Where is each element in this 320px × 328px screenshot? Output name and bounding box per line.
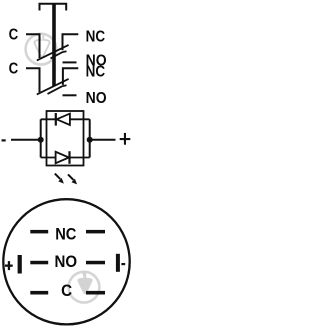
svg-text:NO: NO [55,253,78,271]
watermark logo bottom [69,271,100,303]
row NO dashes [30,261,48,265]
watermark logo top [26,34,57,65]
LED right wire [90,139,116,141]
svg-text:NC: NC [55,226,76,244]
pole 1 NO landing segment [51,51,67,58]
top diode wire [41,118,90,120]
row NC dashes [30,230,48,234]
bottom diode (points right) [56,152,69,163]
bottom diode wire [41,157,90,159]
pole 2 C lead [26,68,40,92]
junction dot left [38,137,44,143]
left pin bar [18,255,22,274]
pole 1 arm from C [37,45,69,61]
LED minus terminal [2,139,6,141]
svg-text:C: C [61,282,72,300]
top diode (points left) [55,113,57,126]
pole 2 NO landing segment [48,85,67,94]
pole 1 NO lead [63,61,77,63]
svg-text:C: C [9,27,19,44]
svg-text:C: C [9,61,19,78]
LED box [47,111,84,166]
actuator bracket [40,4,67,11]
LED right branch [89,119,91,157]
minus sign [121,263,125,265]
svg-text:NO: NO [86,90,107,107]
row C dashes [30,291,48,295]
pole 2 arm from C [37,79,69,95]
svg-text:NC: NC [86,63,106,80]
pole 1 C lead [26,34,40,58]
pinout circle [3,199,129,324]
LED left branch [40,119,42,157]
LED plus terminal [120,138,131,140]
plus sign [5,265,13,267]
actuator stem [52,4,56,87]
LED arrow 1 [55,174,64,184]
svg-text:NC: NC [86,28,106,45]
LED left wire [11,139,41,141]
pole 2 NO lead [63,94,77,96]
pole 2 NC contact [63,68,78,85]
right pin bar [116,254,120,272]
LED arrow 2 [68,174,77,184]
junction dot right [87,137,93,143]
pole 1 NC contact [63,34,79,50]
